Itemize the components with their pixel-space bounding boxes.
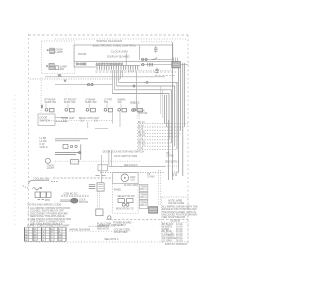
wire: bus x172.5 full [172,42,174,180]
wire: legend divider dotted [162,221,189,223]
svg-text:SURF SW: SURF SW [85,101,97,104]
component: motor blob M1 [71,198,78,203]
node: junction circle E [91,84,93,86]
node: timer box T1 [113,173,138,184]
svg-text:SEE NOTE: SEE NOTE [97,227,109,230]
svg-text:RD: RD [34,237,38,239]
node: oven door switch box [38,114,55,125]
svg-text:GY GRAY: GY GRAY [162,239,173,242]
component: connector P2 hatched [149,207,158,214]
wire: bus x178.4 [177,68,179,172]
node: terminal block TB2 [139,184,147,191]
wire: harness drop 1 [112,70,114,93]
svg-text:SUPPLY CORD CONNECTION CHART: SUPPLY CORD CONNECTION CHART [27,225,70,228]
svg-text:MOTOR: MOTOR [138,112,147,115]
svg-text:MTR: MTR [45,199,50,202]
node: arc dots [52,181,57,183]
svg-text:GN: GN [59,234,63,236]
component: lock relay bars [89,185,96,189]
component: surface switch SW3 [86,108,95,112]
node: rung junction ring A [133,85,135,87]
svg-text:SW: SW [60,67,65,71]
wire: rung y82.3 with drop [119,82,178,149]
component: convection fan arc [29,180,50,184]
svg-text:BROIL UNIT: BROIL UNIT [79,117,93,120]
component: oven lamp OL1 [47,48,54,53]
wire: rung y86 with drop [117,86,175,146]
wire: lower contact row y64.6 [141,64,188,66]
wire: control box divider [139,45,141,60]
wire: light verticals x160-163 [161,86,163,118]
component: connector P1 pins [174,58,178,62]
component: latch marks [96,175,106,177]
node: electronic oven control box [74,45,173,62]
wire: blob leads [60,200,71,202]
wire: run y166.5 [109,166,165,168]
wire: bus x184.5 [184,63,186,127]
wire: bottom inner border line [106,219,188,221]
node: motor terminal cell 3 [47,192,52,198]
node: lock cluster circle [132,109,135,112]
svg-text:WIRING DIAGRAM: WIRING DIAGRAM [96,39,122,43]
wire: page margin dots left [14,95,16,225]
wire: dotted run y161.2 [55,160,140,162]
component: panel lamp B [126,203,129,206]
node: terminal circle A [142,58,144,60]
wire: dotted arrow stub right [165,165,180,167]
wire: switch feeders [46,104,138,109]
svg-text:SELECTOR SW: SELECTOR SW [117,195,135,198]
component: surface switch SW4 [104,108,112,112]
wire: dotted line under top border [55,38,186,40]
wire: bus x164.4 [163,95,165,124]
node: terminal circle B [145,58,147,60]
node: rung junction ring B [146,81,148,83]
svg-text:COM NO NC: COM NO NC [64,192,78,195]
wire: ladder rung 2 [137,126,185,128]
svg-text:RD: RD [34,234,38,236]
wire: dashed run L1 y72 [96,71,177,73]
wire: dashed rows y195-196.5 [61,195,88,196]
svg-text:INDICATOR LTS: INDICATOR LTS [116,208,134,211]
svg-text:P3 CONN: P3 CONN [76,64,87,66]
component: lock relay K2 box [97,183,104,191]
svg-text:CONN: CONN [167,155,174,158]
wire: clock lead vertical [125,53,127,65]
node: bottom circle left [108,216,111,219]
svg-text:DOOR LOCK MOTOR AND SWITCH: DOOR LOCK MOTOR AND SWITCH [103,151,145,154]
node: pilot circle [45,158,50,163]
node: wire ring y152.5 [79,152,81,154]
svg-text:1 2 3 4 5 6 7 8 9 10 11 12 13: 1 2 3 4 5 6 7 8 9 10 11 12 13 14 [96,64,123,66]
component: timer dial [121,174,129,182]
wire: dotted lead y70.3 [141,69,171,71]
svg-text:PANEL: PANEL [114,189,122,192]
component: oven lamp OL2 [46,64,54,70]
svg-text:SEE NOTE 2: SEE NOTE 2 [165,161,180,164]
wire: ladder rung 5 [137,136,178,138]
svg-text:GN: GN [59,237,63,239]
node: oven lamp dotted enclosure [41,41,74,74]
svg-text:SEE NOTE 3: SEE NOTE 3 [104,238,119,241]
node: console dotted enclosure bottom [41,120,112,122]
svg-text:ELECTRONIC OVEN CONTROL: ELECTRONIC OVEN CONTROL [93,43,137,47]
svg-text:BAKE UNIT: BAKE UNIT [62,117,76,120]
component: motor winding squiggle [33,188,41,190]
wire: outer dashed border top [29,34,189,36]
svg-text:CLOCK ASM: CLOCK ASM [111,49,128,53]
svg-text:DOOR: DOOR [78,52,86,56]
wire: harness stub 8 [130,70,132,72]
wire: rung y93.6 with drop [113,94,170,140]
wire: harness drop 4 [118,70,120,82]
wire: bottom dotted rule [25,241,165,243]
svg-text:18 GA: 18 GA [176,239,183,242]
component: resistor R2 [155,68,158,74]
wire: ladder rung 6 [137,139,169,141]
svg-text:LEGEND: LEGEND [170,219,180,222]
svg-text:SWITCH: SWITCH [40,119,50,123]
component: terminal strip TB1 [96,65,141,67]
svg-text:MOTOR: MOTOR [79,201,88,204]
wire: bus x166.7 [166,95,168,127]
wire: harness drop 3 [116,70,118,86]
wire: outer dashed border left [28,34,30,228]
wire: drop x112.5 low [112,112,114,124]
wire: harness drop 5 [120,70,122,79]
wire: outer dashed border right [187,35,189,244]
wire: box drop left [73,62,75,68]
wire: ladder rung 7 [137,142,171,144]
wire: door switch leads [55,118,68,122]
component: relay contact arm [152,58,158,60]
wire: ladder rung 9 [137,148,177,150]
component: panel lamp A [122,203,125,206]
component: mini terminal comb [148,63,153,67]
svg-text:SW: SW [104,101,109,104]
wire: drop x101.7 [101,155,103,183]
svg-text:G: G [51,234,53,236]
wire: dotted stub y41.8 [141,41,173,43]
svg-text:WIRING DIAGRAM: WIRING DIAGRAM [69,229,90,232]
component: broil element E1 [71,160,79,165]
wire: dotted pair capacitor [98,191,100,209]
node: squiggle dot [40,187,41,188]
svg-text:CLK: CLK [130,179,135,182]
svg-text:SERIAL PLATE: SERIAL PLATE [99,224,116,227]
svg-text:N W: N W [172,174,177,177]
wire: bus x168.6 low [168,120,170,180]
wire: dotted run y79 [30,78,121,80]
svg-text:GN: GN [59,240,63,242]
node: control panel dotted box [113,184,138,214]
wire: harness drop 2 [114,70,116,90]
svg-text:V 16: V 16 [138,147,144,150]
node: terminal block TB4 [139,200,147,209]
component: lamp switch S1 [55,66,59,70]
component: surface switch SW2 [65,108,74,112]
svg-text:GND G: GND G [40,146,48,149]
svg-text:NOTES AND WIRING CODE: NOTES AND WIRING CODE [28,203,62,207]
wire: dotted rule y231 [69,230,130,232]
component: surface switch SW6 [133,108,142,112]
svg-text:DISPLAY BOARD: DISPLAY BOARD [107,55,129,59]
svg-text:SEE NOTE 5: SEE NOTE 5 [124,165,138,167]
svg-text:SURF SW: SURF SW [45,101,57,104]
component: terminal board table frame [25,227,67,241]
wire: tick drop x87.8 [87,122,89,129]
node: terminal circle C [142,63,144,65]
text: comb terminal digits [96,64,123,66]
wire: unit label tick pairs [64,120,98,123]
wire: harness stub 10 [135,70,137,72]
svg-text:ASSEMBLY: ASSEMBLY [113,224,126,227]
svg-text:UNIT: UNIT [94,117,100,120]
wire: dotted run y76.8 [45,76,165,78]
svg-text:SW: SW [118,101,123,104]
svg-text:LIGHT: LIGHT [47,167,55,170]
node: motor terminal cell 1 [35,192,40,198]
component: panel switch A [118,199,125,203]
wire: run y84.6 [55,84,113,86]
svg-text:COOLING FAN: COOLING FAN [33,177,50,180]
wire: vertical pair x109 x111.4 [109,150,112,167]
wire: dash marks under motor [38,199,45,201]
component: surface switch SW5 [118,108,127,112]
svg-text:G: G [51,237,53,239]
wire: dash to serial text [89,225,99,227]
component: panel switch B [127,199,134,203]
wire: bus x180.4 [179,68,181,130]
component: connector P1 hatched [172,62,181,68]
wire: ladder rung 1 [137,123,188,125]
svg-text:LAMP: LAMP [55,50,62,54]
wire: run y178 to timer [53,177,113,179]
wire: ladder rung 4 [137,132,180,134]
wire: run to comb [74,66,96,68]
node: console dotted enclosure left edge [40,78,42,114]
wire: ladder rung 3 [137,129,183,131]
wire: harness drop 6 [122,70,124,77]
wire: dotted verticals right of blocks [159,170,161,206]
component: capacitor C1 [96,209,103,216]
svg-text:LOCK SWITCH ASM: LOCK SWITCH ASM [114,155,137,158]
node: note dotted box [162,197,189,242]
component: resistor R1 [154,46,157,52]
node: terminal block TB3 [139,192,147,199]
wire: harness stub 9 [133,70,135,72]
node: latch box [98,165,108,171]
wire: dotted run y172.5 [100,172,165,174]
node: junction circle D [87,84,89,86]
svg-text:BLK 3: BLK 3 [140,205,147,207]
component: bake relay wires [55,139,88,160]
wire: bus x182.8 [182,63,184,176]
wire: dashed stub y75.4 [155,74,176,76]
svg-text:CONN: CONN [147,176,154,179]
svg-text:COLOR CODE: COLOR CODE [168,202,184,205]
wire: relay contact row y59.4 [141,58,173,60]
svg-text:MDL: MDL [130,101,136,104]
wire: small run y128.3 [95,127,108,129]
svg-text:RD: RD [34,240,38,242]
svg-text:CLOCK ASM: CLOCK ASM [124,184,138,187]
wire: harness stub 7 [128,70,130,72]
svg-text:SEE CHART BELOW: SEE CHART BELOW [162,216,186,219]
node: motor terminal cell 2 [41,192,47,198]
svg-text:RD: RD [51,229,55,231]
component: surface switch SW1 [42,105,55,112]
wire: dotted pair to ladder [137,115,139,120]
node: left dots diagonal [23,186,27,188]
svg-text:PART NO 318550115: PART NO 318550115 [165,243,188,246]
svg-text:BLK 1: BLK 1 [140,189,147,191]
wire: ladder rung 8 [137,145,175,147]
svg-text:G: G [51,240,53,242]
wire: rung y89.8 with drop [115,90,172,143]
wire: drop x136.5 [136,72,138,111]
svg-text:BLK 2: BLK 2 [140,197,147,199]
svg-text:CHART REF: CHART REF [114,231,128,234]
svg-text:SURF SW: SURF SW [64,101,76,104]
wire: drop x120 low [119,112,121,127]
